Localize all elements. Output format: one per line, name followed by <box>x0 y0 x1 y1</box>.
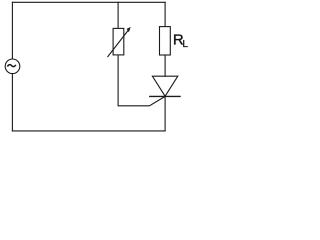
svg-text:L: L <box>182 39 188 50</box>
